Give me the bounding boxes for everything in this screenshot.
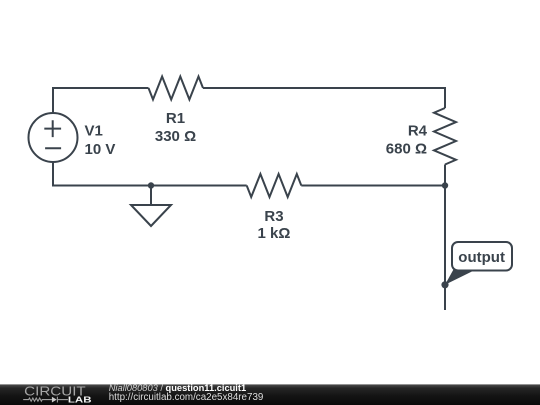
logo diode triangle <box>52 397 57 403</box>
voltage source V1 <box>29 113 78 162</box>
resistor R4 <box>434 108 456 165</box>
wire: middle horizontal right <box>301 185 445 187</box>
node output: junction dot <box>441 281 448 288</box>
ground <box>131 205 171 226</box>
svg-text:330 Ω: 330 Ω <box>155 128 196 145</box>
wire: ground stub <box>150 186 152 206</box>
svg-text:V1: V1 <box>85 123 103 140</box>
node output: bubble <box>452 242 512 271</box>
svg-text:http://circuitlab.com/ca2e5x84: http://circuitlab.com/ca2e5x84re739 <box>109 392 264 403</box>
svg-text:R4: R4 <box>408 123 428 140</box>
svg-text:680 Ω: 680 Ω <box>386 140 427 157</box>
svg-text:R3: R3 <box>264 208 283 225</box>
V1 minus sign <box>45 147 61 149</box>
svg-text:10 V: 10 V <box>85 141 116 158</box>
wire: V1 top stub + top left horizontal <box>53 88 149 113</box>
svg-text:output: output <box>458 249 505 266</box>
junction: R3/R4 node <box>442 182 448 188</box>
resistor R1 <box>149 77 204 100</box>
svg-text:LAB: LAB <box>68 395 92 405</box>
svg-text:R1: R1 <box>166 110 185 127</box>
logo resistor-diode symbol wire + zigzag <box>23 397 68 403</box>
wire: output vertical <box>444 186 446 311</box>
V1 plus sign <box>44 120 61 137</box>
wire: V1 bottom stub + middle horizontal left <box>53 162 247 186</box>
footer bar <box>0 384 540 405</box>
svg-text:1 kΩ: 1 kΩ <box>258 225 291 242</box>
resistor R3 <box>247 174 302 197</box>
junction: ground node <box>148 182 154 188</box>
wire: top right horizontal + right vertical upper <box>203 88 445 108</box>
wire: right vertical lower <box>444 165 446 186</box>
node output: pointer <box>445 269 478 285</box>
